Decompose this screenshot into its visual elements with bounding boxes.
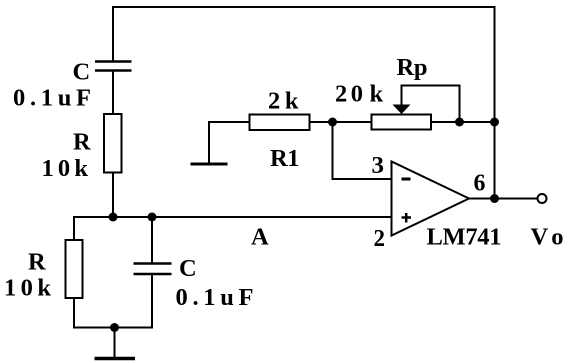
junction dot feedback top (490, 118, 499, 127)
svg-text:Vo: Vo (531, 224, 564, 251)
wire down to lower-left resistor (73, 216, 75, 241)
capacitor C 0.1uF (top-left) plates (95, 62, 132, 71)
ground bar (R1 left) (191, 163, 228, 166)
svg-text:10k: 10k (42, 155, 89, 182)
ground stem (R1 left) (208, 122, 210, 164)
svg-text:6: 6 (474, 170, 486, 197)
junction dot output node (490, 194, 499, 203)
svg-text:2: 2 (374, 225, 386, 252)
svg-text:0.1uF: 0.1uF (13, 85, 91, 112)
svg-text:Rp: Rp (397, 54, 428, 81)
wire ground to R1 (208, 121, 250, 123)
ground stem (bottom) (114, 328, 116, 359)
junction dot R1 output node (328, 118, 337, 127)
wire lower resistor to bottom rail (73, 298, 75, 329)
svg-text:10k: 10k (4, 275, 51, 302)
svg-text:2k: 2k (268, 88, 299, 115)
wire node A down to lower cap (151, 216, 153, 264)
junction dot Rp wiper tie (455, 118, 464, 127)
Rp wiper arrowhead (393, 105, 411, 115)
svg-text:R1: R1 (270, 145, 300, 172)
svg-text:k: k (370, 81, 384, 108)
resistor R1 2k body (250, 115, 310, 131)
wire right feedback vertical (494, 6, 496, 199)
svg-text:0.1uF: 0.1uF (176, 284, 254, 311)
junction dot node A left (109, 213, 118, 222)
Rp wiper down wire (459, 85, 461, 123)
wire R1 to Rp (310, 121, 372, 123)
svg-text:A: A (251, 224, 269, 251)
wire node A horizontal (73, 216, 392, 218)
op-amp minus symbol (402, 178, 411, 181)
svg-text:LM741: LM741 (427, 224, 502, 251)
Rp wiper top wire (401, 85, 460, 87)
junction dot node A right (148, 213, 157, 222)
wire to inverting input horizontal (332, 178, 393, 180)
svg-text:3: 3 (372, 152, 385, 179)
junction dot bottom rail (110, 323, 119, 332)
resistor R 10k (lower-left) body (66, 240, 83, 298)
svg-text:C: C (73, 59, 91, 86)
wire lower cap to bottom rail (151, 274, 153, 329)
op-amp plus symbol (402, 213, 412, 223)
potentiometer Rp 20k body (372, 115, 432, 130)
wire op-amp output (469, 198, 538, 200)
wire left branch top vertical (112, 6, 114, 62)
wire top feedback rail (112, 6, 496, 8)
ground bar (bottom) (95, 357, 136, 361)
wire resistor to node A (112, 173, 114, 219)
capacitor C 0.1uF (lower) plates (134, 264, 172, 275)
svg-text:C: C (179, 255, 197, 282)
wire cap to resistor (112, 71, 114, 115)
svg-text:20: 20 (335, 81, 363, 108)
resistor R 10k (upper-left) body (104, 114, 122, 173)
wire Rp to feedback line (431, 121, 495, 123)
svg-text:R: R (28, 249, 46, 276)
wire bottom rail (73, 327, 152, 329)
wire node to inverting input vertical (332, 122, 334, 180)
svg-text:R: R (73, 129, 91, 156)
op-amp U1 LM741 triangle (392, 162, 470, 236)
Rp wiper stem (401, 86, 403, 107)
output terminal circle (538, 194, 547, 203)
